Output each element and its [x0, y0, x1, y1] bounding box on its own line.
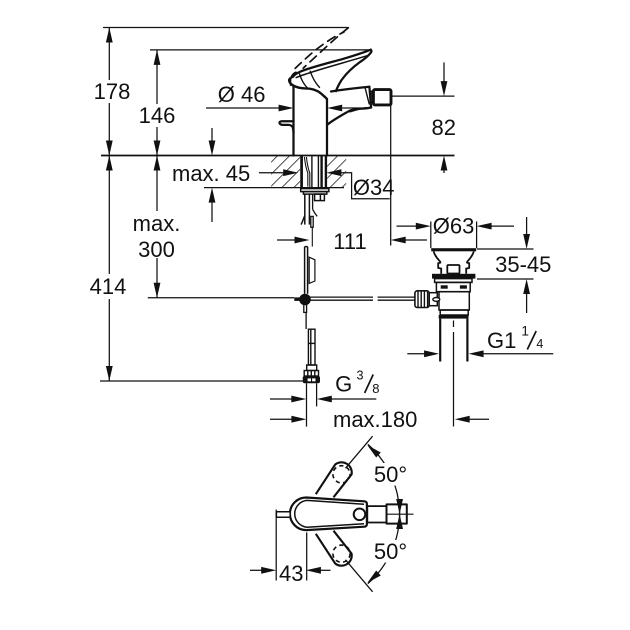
- spout end face: [369, 87, 371, 108]
- spout underside inner line: [350, 108, 366, 112]
- spout underside sweep: [327, 108, 371, 125]
- drain knob square: [447, 265, 459, 274]
- 146 extent line (handle tip level): [150, 49, 370, 51]
- clamp left of dot: [294, 297, 301, 301]
- svg-text:Ø63: Ø63: [433, 214, 475, 239]
- outlet stub right: [315, 194, 325, 201]
- handle crease B: [310, 71, 319, 87]
- dashed raised nose arc: [290, 72, 296, 86]
- pivot ball: [433, 298, 440, 302]
- dimension G3/8 at y=399 with extension lines: [270, 383, 376, 426]
- faucet shank through counter: [301, 156, 329, 294]
- max300 bottom extent line: [148, 297, 294, 299]
- shank inner thick line: [320, 156, 322, 189]
- dimension 146 and max300 vertical line at x=157: [154, 50, 161, 298]
- lower tube: [304, 247, 306, 294]
- plan centre line right: [387, 513, 414, 515]
- dimension 111 arrows at y=240: [277, 237, 427, 244]
- horizontal rod right of dot: [310, 296, 373, 298]
- spout inner end diagonal: [365, 89, 369, 104]
- hose nut dark: [303, 376, 320, 383]
- upper arc: [368, 444, 400, 517]
- drain lower block: [439, 292, 469, 310]
- svg-text:3: 3: [357, 369, 364, 383]
- lower extension diagonal: [346, 560, 373, 592]
- plan aerator cap: [387, 504, 407, 523]
- dome curve to body right: [294, 86, 327, 99]
- handle underside from tip: [336, 50, 371, 91]
- 82 top extension line from aerator: [391, 95, 455, 97]
- hose upper block: [307, 365, 317, 371]
- drain seal band: [432, 274, 475, 279]
- svg-text:Ø 46: Ø 46: [218, 82, 266, 107]
- knurled connector: [415, 291, 429, 308]
- svg-text:50°: 50°: [374, 539, 407, 564]
- spout top edge: [331, 87, 369, 92]
- junction dot: [299, 294, 311, 306]
- dimension max180 at y=419.2: [270, 321, 489, 427]
- pop-up rod thin: [311, 227, 313, 246]
- plan body outline: [290, 498, 367, 531]
- dashed raised handle line 2: [295, 32, 344, 68]
- svg-text:Ø34: Ø34: [353, 175, 395, 200]
- shank right wall: [325, 156, 327, 189]
- dimension 82 arrows at x=444: [441, 62, 448, 173]
- connector stem: [429, 293, 437, 306]
- stub below dot: [304, 304, 307, 313]
- white mask + label 50deg lower: [373, 540, 414, 563]
- pop-up knob on body left: [279, 121, 293, 133]
- lower arc: [368, 511, 400, 584]
- drain tailpipe: [439, 319, 441, 362]
- dimension 35-45 at x=526.6: [477, 217, 534, 313]
- dimension max45 arrows at x=212: [209, 128, 216, 222]
- shank mid tube: [311, 156, 313, 189]
- counter top surface line: [101, 155, 455, 157]
- mounting nut step: [303, 192, 326, 195]
- pop-up linkage: [294, 294, 415, 329]
- dimension 178 and 414 vertical line at x=109: [106, 28, 113, 382]
- aerator neck: [371, 91, 373, 102]
- supply hose: [303, 329, 320, 383]
- lower handle arm: [316, 531, 352, 566]
- hatch left patch: [271, 156, 300, 187]
- drain rim below seal: [435, 279, 472, 283]
- pop-up rod block: [311, 216, 313, 227]
- svg-text:111: 111: [333, 229, 366, 254]
- svg-text:35-45: 35-45: [495, 252, 551, 277]
- svg-text:G: G: [335, 371, 352, 396]
- plan set screw circle: [354, 509, 366, 521]
- white mask + label 50deg upper: [373, 463, 414, 486]
- dimension 43 at y=570.3: [250, 510, 331, 581]
- drain slotted body: [436, 282, 470, 291]
- 50 degree dimension arcs (drawn over plan view): [346, 436, 404, 592]
- svg-text:max.: max.: [133, 211, 181, 236]
- hose body: [308, 329, 315, 365]
- extension lines group: [100, 28, 455, 382]
- shank left wall: [300, 156, 303, 189]
- drain neck left profile: [434, 251, 442, 273]
- mounting nut bar: [301, 189, 329, 192]
- svg-text:max. 45: max. 45: [172, 161, 250, 186]
- svg-text:300: 300: [138, 237, 175, 262]
- svg-text:82: 82: [432, 115, 456, 140]
- guide tube: [304, 194, 306, 225]
- top extent line (handle raised tip level): [103, 27, 348, 29]
- svg-text:414: 414: [90, 274, 127, 299]
- handle nose: [289, 77, 293, 86]
- drain centre line extension: [453, 321, 455, 328]
- lower dashed eye circle: [333, 545, 350, 562]
- bracket flag: [309, 257, 315, 283]
- svg-text:4: 4: [536, 337, 543, 351]
- svg-text:G1: G1: [487, 328, 516, 353]
- dimension diam63 at y=226 with extension lines: [397, 222, 515, 249]
- dimension diam46 arrows at y=108: [206, 105, 363, 112]
- hose hex striped: [304, 371, 318, 377]
- inner piece: [312, 194, 314, 209]
- drain flange bar: [431, 248, 476, 251]
- upper extension diagonal: [346, 436, 373, 468]
- svg-text:43: 43: [279, 561, 303, 586]
- upper dashed eye circle: [333, 466, 350, 483]
- plan rod stub left: [276, 512, 290, 517]
- svg-text:50°: 50°: [374, 462, 407, 487]
- counter hatching: [271, 156, 346, 187]
- dimension diam34 arrows at y=172.7 with bent leader: [259, 169, 390, 198]
- hatch right patch: [327, 156, 346, 187]
- upper handle arm (drawn first, body overlaps): [316, 462, 352, 497]
- handle inner top line: [296, 55, 369, 77]
- drain block bottom bar: [439, 315, 469, 319]
- aerator cap: [373, 90, 391, 105]
- svg-text:max.180: max.180: [333, 407, 417, 432]
- svg-text:8: 8: [372, 381, 379, 396]
- dashed raised handle line 1: [303, 28, 348, 68]
- svg-text:1: 1: [521, 324, 529, 339]
- counter bottom line: [204, 187, 344, 189]
- drain neck right profile: [466, 251, 474, 273]
- plan aerator connector: [367, 506, 386, 522]
- plan body inner outline: [295, 500, 364, 527]
- handle top edge: [293, 50, 371, 77]
- handle crease A: [300, 74, 308, 89]
- svg-text:178: 178: [94, 79, 131, 104]
- svg-text:146: 146: [139, 103, 176, 128]
- faucet body right edge: [326, 99, 328, 156]
- 111 right extension line below aerator: [390, 105, 392, 246]
- dimension G1 1/4 at y=353.8: [407, 350, 553, 357]
- faucet body left edge: [292, 86, 294, 156]
- shank rod curves: [304, 157, 307, 187]
- 414 bottom extent line: [100, 380, 303, 382]
